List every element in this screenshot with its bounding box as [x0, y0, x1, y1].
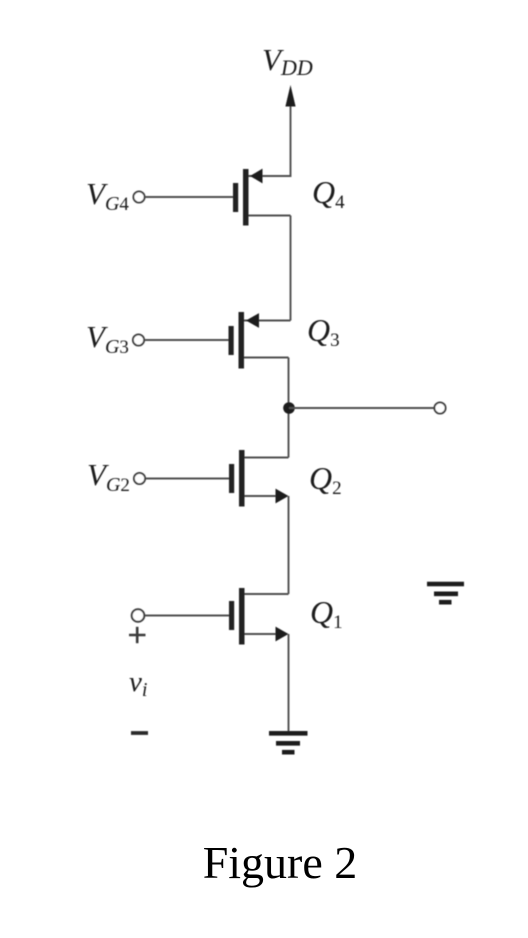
svg-text:Q2: Q2 [309, 460, 342, 499]
transistor Q1 (NMOS) [229, 588, 289, 645]
svg-text:vi: vi [129, 666, 147, 701]
node output junction dot [283, 402, 295, 414]
gate bar Q2 [229, 464, 234, 493]
wire Q2 source to Q1 drain [288, 496, 290, 594]
drain lead Q1 [245, 593, 289, 595]
wire Q4 drain to Q3 source [290, 216, 292, 321]
source lead Q1 [245, 633, 279, 635]
wire Q1 source to ground [288, 634, 290, 732]
terminal output [434, 402, 445, 413]
source lead Q4 [249, 175, 291, 177]
wire output [289, 407, 434, 409]
terminal VG3 [133, 334, 144, 345]
wire VDD supply arrow shaft [290, 103, 292, 177]
source lead Q2 [245, 495, 279, 497]
terminal VG4 [133, 191, 144, 202]
svg-text:Q3: Q3 [307, 312, 340, 351]
wire VG2 to Q2 gate [146, 478, 230, 480]
terminal VG2 [134, 473, 145, 484]
transistor Q3 (PMOS) [229, 312, 291, 369]
wire VG4 to Q4 gate [145, 196, 233, 198]
ground (right reference symbol) [427, 584, 464, 602]
svg-text:VG2: VG2 [87, 457, 130, 496]
terminal vi input [132, 609, 145, 622]
source arrow Q4 [250, 169, 263, 184]
channel bar Q1 [239, 588, 245, 645]
wire vi to Q1 gate [145, 615, 229, 617]
gate bar Q1 [229, 601, 234, 630]
gate bar Q3 [229, 326, 234, 355]
source arrow Q3 [246, 313, 259, 328]
svg-text:VDD: VDD [262, 42, 313, 80]
source arrow Q2 [276, 489, 289, 504]
source arrow Q1 [276, 627, 289, 642]
drain lead Q2 [245, 457, 289, 459]
ground (main, below Q1) [269, 733, 308, 752]
label plus sign [129, 627, 146, 643]
wire VG3 to Q3 gate [145, 339, 229, 341]
svg-text:Q1: Q1 [310, 594, 343, 633]
channel bar Q4 [243, 169, 249, 226]
VDD arrowhead [285, 85, 295, 107]
drain lead Q4 [249, 215, 291, 217]
channel bar Q3 [239, 312, 245, 369]
label minus sign [131, 731, 148, 735]
svg-text:Q4: Q4 [312, 174, 345, 213]
gate bar Q4 [233, 183, 238, 212]
wire Q3 drain to Q2 drain through output node [288, 358, 290, 458]
source lead Q3 [244, 320, 291, 322]
svg-text:VG4: VG4 [86, 176, 129, 215]
transistor Q4 (PMOS) [233, 169, 291, 226]
svg-text:VG3: VG3 [86, 319, 129, 358]
channel bar Q2 [239, 450, 245, 507]
transistor Q2 (NMOS) [229, 450, 289, 507]
drain lead Q3 [244, 357, 289, 359]
svg-text:Figure 2: Figure 2 [203, 837, 358, 888]
